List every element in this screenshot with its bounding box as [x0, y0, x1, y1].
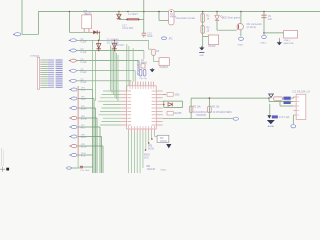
svg-text:GND VCC: GND VCC	[114, 45, 125, 47]
svg-text:C10 10uF: C10 10uF	[80, 170, 90, 172]
svg-text:0.1uF: 0.1uF	[81, 72, 87, 74]
svg-text:R5 10k: R5 10k	[193, 106, 201, 109]
svg-text:SCK: SCK	[144, 156, 149, 159]
svg-text:XTAL1: XTAL1	[284, 39, 291, 42]
svg-text:0.1uF: 0.1uF	[81, 62, 87, 64]
svg-text:VCC: VCC	[81, 90, 86, 92]
svg-text:BAT85: BAT85	[175, 112, 183, 115]
svg-text:R6 10k: R6 10k	[212, 106, 220, 109]
svg-text:HD44780: HD44780	[196, 115, 206, 117]
svg-text:MOSI: MOSI	[81, 147, 87, 149]
svg-text:MISO: MISO	[81, 137, 87, 139]
svg-text:MOSI: MOSI	[148, 147, 154, 150]
svg-text:0.1uF: 0.1uF	[81, 52, 87, 54]
svg-text:1uF: 1uF	[268, 18, 273, 21]
svg-text:DS1813: DS1813	[160, 67, 169, 69]
svg-text:22p 22p: 22p 22p	[139, 78, 147, 80]
svg-text:(2.1mm): (2.1mm)	[247, 26, 256, 29]
svg-text:LED 3mm green: LED 3mm green	[222, 17, 241, 20]
svg-text:GND2: GND2	[261, 43, 268, 45]
svg-text:SCK: SCK	[81, 156, 86, 158]
svg-text:GND: GND	[199, 55, 204, 57]
svg-text:CON A+B: CON A+B	[30, 55, 40, 58]
svg-text:MAX232A: MAX232A	[284, 42, 294, 45]
svg-text:CONN: CONN	[160, 140, 167, 143]
svg-text:D2 1N4148: D2 1N4148	[107, 42, 119, 44]
svg-text:C17 0.1uF: C17 0.1uF	[279, 117, 290, 119]
svg-text:D1 1N4148: D1 1N4148	[107, 40, 119, 42]
svg-text:LCD-DISPLAY 4 X 20 CHARACTERS: LCD-DISPLAY 4 X 20 CHARACTERS	[193, 111, 232, 114]
svg-text:0.1uF: 0.1uF	[81, 42, 87, 44]
svg-text:0.1uF: 0.1uF	[81, 82, 87, 84]
svg-text:78L05Z: 78L05Z	[84, 12, 93, 15]
svg-text:L1 10uH: L1 10uH	[128, 13, 138, 16]
svg-text:0.1uF 50V: 0.1uF 50V	[122, 27, 133, 30]
svg-text:AGND: AGND	[268, 125, 275, 128]
svg-text:GND3: GND3	[161, 170, 168, 172]
svg-text:IC2 24LC64_U3: IC2 24LC64_U3	[293, 91, 311, 94]
svg-text:10uF: 10uF	[147, 35, 153, 38]
svg-text:GND: GND	[81, 99, 86, 101]
svg-text:Resonator murata: Resonator murata	[177, 17, 196, 20]
svg-text:RST: RST	[81, 128, 86, 130]
svg-text:1N4148: 1N4148	[147, 168, 156, 171]
svg-text:GND1: GND1	[238, 45, 245, 47]
svg-text:100k: 100k	[175, 94, 181, 96]
svg-text:RS232: RS232	[209, 46, 217, 48]
